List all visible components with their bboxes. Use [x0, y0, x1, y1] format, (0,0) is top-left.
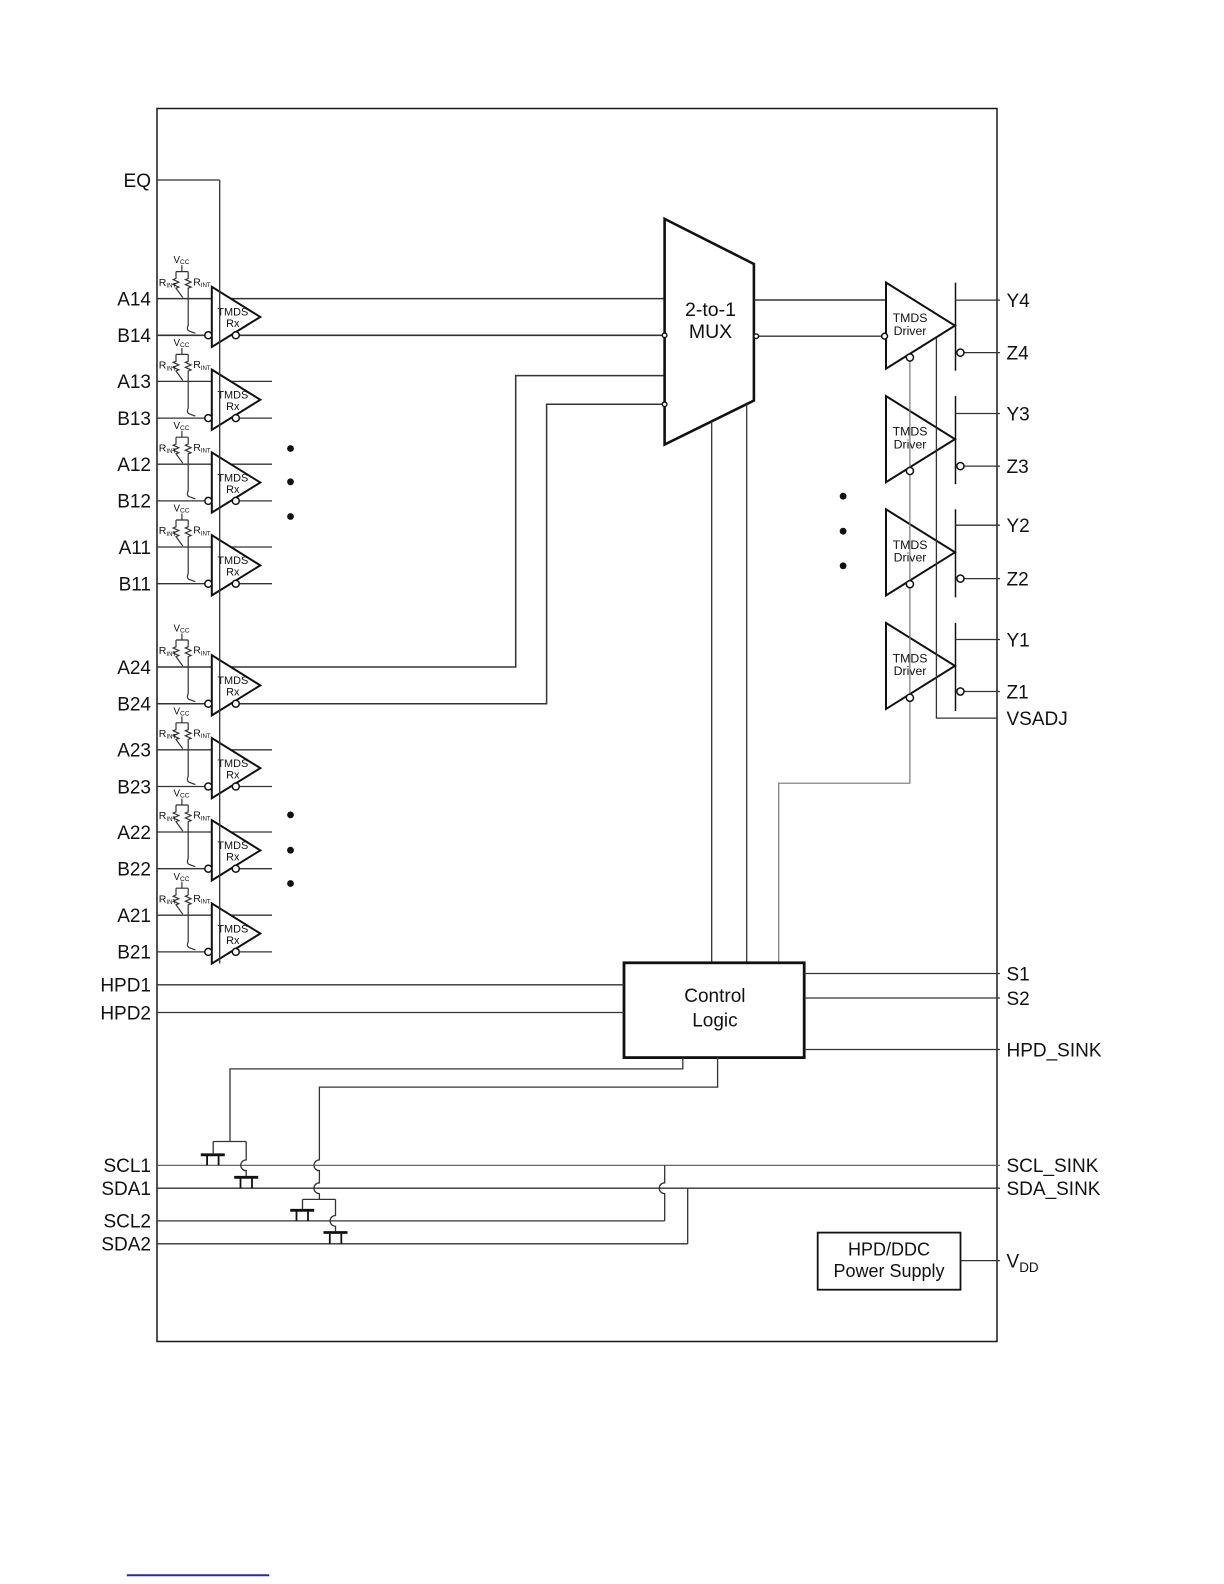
- svg-text:B12: B12: [117, 492, 151, 513]
- resistor RINT pullup to B13: [185, 354, 195, 416]
- wire A12 stub: [157, 463, 272, 465]
- svg-text:SDA1: SDA1: [101, 1179, 151, 1200]
- Z1 inverting bubble: [957, 688, 964, 695]
- svg-text:A23: A23: [117, 741, 151, 762]
- bottom-edge bubble B23: [232, 783, 239, 790]
- resistor RINT pullup to A11: [173, 520, 183, 546]
- wire B23 stub: [157, 786, 272, 788]
- TMDS Rx amplifier (channel 13): [212, 370, 260, 430]
- ellipsis dots between Rx group 1: [287, 445, 294, 452]
- svg-text:B11: B11: [119, 575, 151, 596]
- svg-text:HPD_SINK: HPD_SINK: [1007, 1040, 1102, 1061]
- Z2 inverting bubble: [957, 575, 964, 582]
- wire SCL1 to SCL_SINK: [157, 1164, 1000, 1166]
- svg-text:A21: A21: [117, 906, 151, 927]
- svg-text:Y2: Y2: [1007, 516, 1030, 537]
- svg-text:Y4: Y4: [1007, 291, 1031, 312]
- TMDS Driver 3: [886, 396, 955, 482]
- gate tie bar switch pair 1: [213, 1142, 246, 1154]
- svg-text:Y1: Y1: [1007, 630, 1030, 651]
- wire SDA1 to SDA_SINK: [157, 1187, 1000, 1189]
- 2-to-1 MUX block: [665, 219, 754, 445]
- svg-text:MUX: MUX: [689, 321, 732, 343]
- connector SCL2 to SCL_SINK (hops SDA line): [659, 1165, 664, 1221]
- bottom-edge bubble B14: [232, 332, 239, 339]
- driver 4 enable bubble: [906, 354, 913, 361]
- pass transistor Q4 on SDA2: [324, 1231, 348, 1234]
- wire SCL2: [157, 1220, 665, 1222]
- HPD/DDC Power Supply block: [818, 1233, 961, 1290]
- svg-text:SDA2: SDA2: [101, 1235, 151, 1256]
- svg-text:Y3: Y3: [1007, 404, 1030, 425]
- VSADJ bus to drivers: [936, 338, 997, 718]
- resistor RINT pullup to A14: [173, 272, 183, 298]
- MUX select line 1 from control logic: [711, 421, 713, 962]
- svg-text:EQ: EQ: [124, 171, 151, 192]
- svg-text:HPD/DDC: HPD/DDC: [848, 1239, 930, 1259]
- svg-text:S2: S2: [1007, 989, 1030, 1010]
- svg-text:HPD1: HPD1: [100, 976, 151, 997]
- svg-text:Logic: Logic: [692, 1011, 737, 1032]
- TMDS Rx amplifier (channel 24): [212, 655, 260, 715]
- svg-text:HPD2: HPD2: [100, 1003, 151, 1024]
- bottom-edge bubble B13: [232, 415, 239, 422]
- svg-text:A13: A13: [117, 372, 151, 393]
- svg-text:Z2: Z2: [1007, 569, 1029, 590]
- svg-text:Rx: Rx: [226, 687, 240, 699]
- bottom-edge bubble B12: [232, 497, 239, 504]
- svg-text:Rx: Rx: [226, 401, 240, 413]
- svg-text:B13: B13: [117, 409, 151, 430]
- svg-text:Rx: Rx: [226, 769, 240, 781]
- svg-text:TMDS: TMDS: [217, 390, 248, 402]
- wire Z4 output: [964, 352, 1000, 354]
- svg-text:VSADJ: VSADJ: [1007, 709, 1068, 730]
- inverting input bubble B23: [205, 783, 212, 790]
- driver 1 input bubble: [882, 333, 888, 339]
- wire S2: [804, 997, 1000, 999]
- driver 2 enable bubble: [906, 581, 913, 588]
- driver enable bus from control logic (gray): [779, 358, 910, 963]
- wire HPD2: [157, 1012, 624, 1014]
- wire B22 stub: [157, 868, 272, 870]
- svg-text:TMDS: TMDS: [217, 555, 248, 567]
- pass transistor Q1 on SCL1: [201, 1153, 225, 1156]
- svg-text:A11: A11: [119, 538, 151, 559]
- svg-text:TMDS: TMDS: [217, 758, 248, 770]
- svg-text:Control: Control: [684, 986, 745, 1007]
- wire MUX Z output to TMDS driver: [754, 335, 885, 337]
- wire S1: [804, 973, 1000, 975]
- svg-text:Z1: Z1: [1007, 682, 1029, 703]
- wire Z2 output: [964, 578, 1000, 580]
- wire A11 stub: [157, 546, 272, 548]
- MUX input bubble B24: [662, 402, 667, 407]
- TMDS Driver 2: [886, 509, 955, 595]
- wire HPD1: [157, 984, 624, 986]
- wire Y4 output: [956, 299, 1001, 301]
- svg-text:B24: B24: [117, 695, 151, 716]
- resistor RINT pullup to B14: [185, 272, 195, 334]
- inverting input bubble B13: [205, 415, 212, 422]
- inverting input bubble B11: [205, 580, 212, 587]
- wire Z3 output: [964, 465, 1000, 467]
- bottom-edge bubble B21: [232, 948, 239, 955]
- inverting input bubble B24: [205, 700, 212, 707]
- driver 2 output bar: [955, 509, 957, 597]
- Control Logic block: [624, 963, 804, 1058]
- svg-text:Power Supply: Power Supply: [833, 1261, 944, 1281]
- resistor RINT pullup to A21: [173, 888, 183, 914]
- TMDS Rx amplifier (channel 11): [212, 535, 260, 595]
- resistor RINT pullup to B22: [185, 805, 195, 867]
- wire B24 routed up to MUX inverting input: [157, 404, 665, 703]
- svg-text:TMDS: TMDS: [217, 923, 248, 935]
- TMDS Rx amplifier (channel 23): [212, 738, 260, 798]
- TMDS Rx amplifier (channel 12): [212, 452, 260, 512]
- wire A13 stub: [157, 380, 272, 382]
- svg-text:TMDS: TMDS: [217, 307, 248, 319]
- ellipsis dots between Rx group 2: [287, 812, 294, 819]
- inverting input bubble B14: [205, 332, 212, 339]
- resistor RINT pullup to B23: [185, 723, 195, 785]
- resistor RINT pullup to A12: [173, 437, 183, 463]
- pass transistor Q3 on SCL2: [290, 1209, 314, 1212]
- inverting input bubble B12: [205, 497, 212, 504]
- wire Y3 output: [956, 413, 1001, 415]
- inverting input bubble B21: [205, 948, 212, 955]
- svg-text:A12: A12: [117, 455, 151, 476]
- footer rule (blue): [127, 1574, 269, 1576]
- driver 1 enable bubble: [906, 694, 913, 701]
- svg-text:TMDS: TMDS: [217, 472, 248, 484]
- svg-text:TMDS: TMDS: [217, 840, 248, 852]
- wire SDA2: [157, 1243, 688, 1245]
- svg-text:Rx: Rx: [226, 567, 240, 579]
- wire A14 to MUX input: [157, 298, 665, 300]
- wire A23 stub: [157, 749, 272, 751]
- wire B11 stub: [157, 583, 272, 585]
- TMDS Driver 4: [886, 283, 955, 369]
- wire A24 routed up to MUX input: [157, 376, 665, 667]
- gate drop to SDA2 transistor (hops SCL2): [330, 1199, 335, 1231]
- TMDS Rx amplifier (channel 14): [212, 287, 260, 347]
- Z4 inverting bubble: [957, 349, 964, 356]
- svg-text:Rx: Rx: [226, 484, 240, 496]
- svg-text:Driver: Driver: [894, 324, 927, 338]
- driver 3 output bar: [955, 396, 957, 484]
- resistor RINT pullup to B12: [185, 437, 195, 499]
- wire B13 stub: [157, 417, 272, 419]
- wire B14 to MUX inverting input: [157, 334, 665, 336]
- wire A22 stub: [157, 831, 272, 833]
- svg-text:SDA_SINK: SDA_SINK: [1007, 1179, 1101, 1200]
- svg-text:S1: S1: [1007, 964, 1030, 985]
- svg-text:B14: B14: [117, 326, 151, 347]
- MUX select line 2 from control logic: [746, 404, 748, 963]
- svg-text:B21: B21: [117, 943, 151, 964]
- svg-text:SCL_SINK: SCL_SINK: [1007, 1156, 1099, 1177]
- resistor RINT pullup to B24: [185, 640, 195, 702]
- MUX output bubble: [754, 334, 759, 339]
- driver 3 enable bubble: [906, 467, 913, 474]
- MUX input bubble B14: [662, 333, 667, 338]
- wire Z1 output: [964, 691, 1000, 693]
- resistor RINT pullup to A22: [173, 805, 183, 831]
- svg-text:B22: B22: [117, 860, 151, 881]
- wire VDD: [961, 1260, 1001, 1262]
- control wire to DDC switch pair 1: [230, 1058, 683, 1142]
- svg-text:B23: B23: [117, 777, 151, 798]
- gate drop to SDA1 transistor (hops SCL1): [241, 1142, 246, 1177]
- EQ bus vertical (feeds all TMDS Rx stages): [219, 180, 221, 964]
- wire MUX Y output to TMDS driver: [754, 299, 886, 301]
- driver 1 output bar: [955, 623, 957, 711]
- wire Y2 output: [956, 524, 1001, 526]
- Z3 inverting bubble: [957, 463, 964, 470]
- TMDS Rx amplifier (channel 21): [212, 903, 260, 963]
- pass transistor Q2 on SDA1: [234, 1176, 258, 1179]
- resistor RINT pullup to B21: [185, 888, 195, 950]
- resistor RINT pullup to A23: [173, 723, 183, 749]
- driver 4 output bar: [955, 283, 957, 371]
- wire B12 stub: [157, 500, 272, 502]
- bottom-edge bubble B11: [232, 580, 239, 587]
- bottom-edge bubble B22: [232, 865, 239, 872]
- inverting input bubble B22: [205, 865, 212, 872]
- svg-text:2-to-1: 2-to-1: [685, 299, 736, 321]
- svg-text:TMDS: TMDS: [217, 675, 248, 687]
- ellipsis dots drivers: [840, 493, 847, 500]
- wire EQ horizontal: [157, 179, 220, 181]
- svg-text:Rx: Rx: [226, 935, 240, 947]
- TMDS Driver 1: [886, 623, 955, 709]
- svg-text:Z3: Z3: [1007, 457, 1029, 478]
- resistor RINT pullup to B11: [185, 520, 195, 582]
- wire Y1 output: [956, 639, 1001, 641]
- bottom-edge bubble B24: [232, 700, 239, 707]
- svg-text:A14: A14: [117, 289, 151, 310]
- connector SDA2 to SDA_SINK: [687, 1188, 689, 1244]
- wire B21 stub: [157, 951, 272, 953]
- svg-text:SCL2: SCL2: [103, 1212, 151, 1233]
- gate tie bar switch pair 2: [303, 1199, 336, 1209]
- control wire to DDC switch pair 2 (with wire hops): [314, 1058, 718, 1200]
- outer chip boundary box: [157, 109, 997, 1342]
- svg-text:Rx: Rx: [226, 852, 240, 864]
- svg-text:Z4: Z4: [1007, 343, 1030, 364]
- svg-text:Rx: Rx: [226, 318, 240, 330]
- TMDS Rx amplifier (channel 22): [212, 820, 260, 880]
- svg-text:A22: A22: [117, 823, 151, 844]
- wire HPD_SINK: [804, 1049, 1000, 1051]
- svg-text:SCL1: SCL1: [103, 1156, 151, 1177]
- resistor RINT pullup to A24: [173, 640, 183, 666]
- wire A21 stub: [157, 914, 272, 916]
- svg-text:A24: A24: [117, 658, 151, 679]
- resistor RINT pullup to A13: [173, 354, 183, 380]
